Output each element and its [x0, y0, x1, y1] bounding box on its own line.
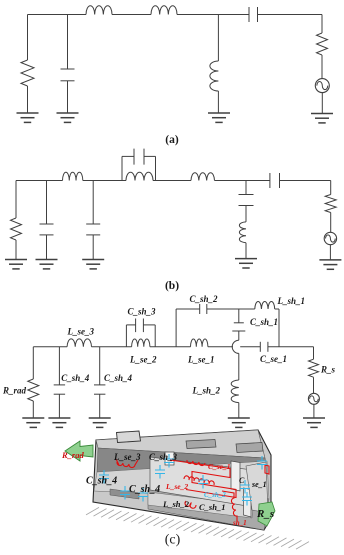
svg-text:C_se_1: C_se_1 — [208, 462, 231, 471]
wire: R_rad to ground — [32, 401, 34, 418]
wire: panel-b tank top left — [122, 155, 134, 157]
wire: C_sh_4 second to ground — [99, 394, 101, 418]
3D model: cyan capacitor mark 7 — [240, 480, 250, 494]
svg-text:C_sh_4: C_sh_4 — [129, 484, 160, 495]
inductor: panel-b shunt branch inductor — [239, 222, 246, 243]
wire: C_sh_3 tank top left — [126, 324, 135, 326]
wire: panel-c rail seg4a — [208, 346, 233, 348]
svg-text:L_sh_2: L_sh_2 — [192, 386, 221, 396]
wire: L_sh_2 to ground — [238, 403, 240, 418]
svg-text:L_se_3: L_se_3 — [67, 327, 95, 337]
svg-text:L_sh_2: L_sh_2 — [162, 499, 190, 509]
capacitor: panel-a shunt capacitor — [61, 69, 75, 81]
svg-text:sh_1: sh_1 — [232, 519, 247, 527]
svg-text:L_se_1: L_se_1 — [187, 355, 215, 365]
wire: C_sh_3 tank right riser — [154, 325, 156, 347]
3D label C_sh_3 — [149, 452, 178, 462]
capacitor: panel-b shunt capacitor 1 — [40, 224, 54, 235]
wire: panel-a resistor to source — [321, 55, 323, 79]
3D model: white slot near C_sh_3 — [165, 452, 174, 465]
wire: panel-b shunt cap1 to ground — [46, 235, 48, 260]
wire: panel-b left resistor lead — [15, 181, 17, 219]
3D model: recessed cavity — [150, 457, 253, 507]
ground: panel-a shunt inductor — [208, 113, 230, 122]
wire: R_s to source — [313, 377, 315, 393]
wire: panel-b tank left riser — [121, 156, 123, 180]
svg-text:C_se_1: C_se_1 — [260, 354, 287, 364]
inductor: panel-b tank inductor — [126, 172, 153, 180]
source: panel-a AC source — [315, 79, 329, 93]
svg-text:R_rad: R_rad — [61, 450, 84, 460]
ground: panel-a source — [311, 114, 333, 123]
label C_se_1 — [260, 354, 287, 364]
3D model: right end inner face — [246, 462, 268, 513]
wire: panel-c right drop — [313, 347, 315, 359]
wire: panel-a rail to series capacitor — [177, 14, 249, 16]
wire: C_sh_1 to hop — [238, 331, 240, 340]
wire: panel-b rail seg5 — [280, 180, 331, 182]
wire: panel-c source to ground — [313, 404, 315, 418]
label C_sh_4 (second) — [104, 373, 133, 383]
3D model: cyan capacitor mark 5 — [164, 454, 174, 468]
wire: panel-b rail seg2 — [83, 180, 126, 182]
wire: panel-b shunt branch to ground — [245, 243, 247, 259]
wire: panel-b shunt cap2 lead — [92, 181, 94, 225]
resistor R_s — [309, 359, 319, 377]
ground: C_sh_4 second — [89, 418, 111, 427]
3D model: label R_rad red — [61, 450, 84, 460]
label L_sh_1 — [277, 296, 306, 306]
capacitor C_sh_3 — [136, 319, 144, 333]
wire: panel-a source to ground — [321, 93, 323, 114]
3D model: red meander row — [184, 476, 214, 485]
svg-text:L_se_2: L_se_2 — [129, 355, 157, 365]
wire: upper branch riser — [175, 309, 177, 347]
wire: C_sh_3 tank left riser — [125, 325, 127, 347]
wire: panel-b rail seg3 — [153, 180, 191, 182]
svg-text:C_sh_2: C_sh_2 — [190, 294, 219, 304]
inductor: panel-a series inductor 1 — [86, 6, 112, 15]
wire: panel-a shunt capacitor lead — [67, 15, 69, 70]
resistor: panel-a source resistor — [317, 33, 328, 55]
inductor: panel-a series inductor 2 — [151, 6, 177, 15]
ground: panel-a shunt capacitor — [57, 113, 79, 122]
wire: panel-b rail seg1 — [16, 180, 63, 182]
resistor: panel-a left shunt resistor — [21, 60, 34, 86]
wire: panel-a rail between inductors — [112, 14, 151, 16]
3D label se_1 — [251, 480, 267, 489]
label L_se_3 — [67, 327, 95, 337]
resistor: panel-b source resistor — [325, 195, 336, 213]
3D model: red feed to bottom right — [222, 491, 237, 522]
3D label C_sh_4 second — [129, 484, 160, 495]
3D model: red trace coil middle — [187, 460, 205, 466]
3D model: cyan capacitor mark 3 — [138, 488, 148, 502]
wire: hop to L_sh_2 — [238, 353, 240, 380]
capacitor: panel-b series capacitor — [270, 173, 280, 188]
wire: panel-a rail right segment — [258, 14, 323, 16]
wire: panel-b tank right riser — [155, 156, 157, 180]
3D model: cyan capacitor mark 8 — [257, 456, 267, 470]
label L_se_1 — [187, 355, 215, 365]
3D model: top-face slot 1 — [186, 440, 216, 449]
ground: L_sh_2 — [228, 418, 250, 427]
capacitor C_se_1 — [260, 342, 268, 352]
wire hop: branch crosses rail without joining — [232, 340, 239, 353]
3D model: cyan capacitor mark 1 — [99, 470, 109, 484]
3D model: red label C_se_1 — [208, 462, 231, 471]
ground: R_rad — [22, 418, 44, 427]
svg-text:R_s: R_s — [320, 365, 336, 375]
3D model: green patch R_s — [258, 502, 275, 526]
inductor L_se_2 — [132, 339, 150, 347]
3D model: vertical slot right — [231, 461, 240, 491]
wire: panel-b shunt branch mid — [245, 206, 247, 222]
source: panel-c AC source — [308, 393, 319, 404]
svg-text:(a): (a) — [165, 134, 179, 146]
3D model: top-face slot 2 — [236, 443, 263, 453]
ground: panel-b shunt capacitor 1 — [36, 260, 58, 269]
wire: R_rad lead — [32, 347, 34, 379]
capacitor C_sh_1 — [232, 323, 245, 331]
3D model: cyan capacitor mark 9 — [242, 492, 252, 506]
svg-text:C_sh_2: C_sh_2 — [204, 491, 226, 499]
3D model: cyan capacitor mark 2 — [120, 486, 130, 500]
wire: L_sh_1 right drop — [278, 309, 280, 347]
label C_sh_3 — [128, 307, 157, 317]
label: (c) — [165, 533, 181, 548]
label: (b) — [165, 280, 179, 292]
capacitor C_sh_2 — [200, 304, 207, 314]
wire: panel-c rail seg1 — [33, 346, 67, 348]
wire: C_sh_4 second lead — [99, 347, 101, 385]
svg-text:(c): (c) — [165, 533, 181, 548]
wire: upper branch top seg1 — [176, 308, 200, 310]
3D label L_se_3 — [113, 452, 141, 462]
svg-text:se_1: se_1 — [251, 480, 267, 489]
capacitor C_sh_4 (first) — [54, 385, 65, 394]
wire: upper branch top seg2 — [207, 308, 255, 310]
ground: panel-b source — [319, 260, 341, 269]
wire: panel-b rail seg4 — [215, 180, 270, 182]
capacitor: panel-a series capacitor — [249, 7, 258, 22]
label R_s — [320, 365, 336, 375]
svg-text:C: C — [239, 476, 245, 485]
svg-text:C_sh_1: C_sh_1 — [250, 317, 278, 327]
wire: panel-b shunt branch lead — [245, 181, 247, 195]
inductor L_se_3 — [67, 339, 91, 347]
3D package model: substrate slab silhouette — [93, 430, 271, 530]
wire: panel-a left resistor to ground — [27, 86, 29, 113]
3D model: cyan label C_sh_2 — [204, 491, 226, 499]
3D model: red mark right edge — [265, 465, 269, 474]
inductor L_sh_2 — [231, 380, 239, 403]
3D model: lower front band right — [148, 490, 269, 530]
svg-text:L_se_3: L_se_3 — [113, 452, 141, 462]
wire: C_sh_1 lead from node — [238, 309, 240, 323]
ground: panel-b shunt branch — [235, 259, 257, 268]
capacitor: panel-b shunt branch capacitor — [239, 195, 254, 206]
svg-text:C_sh_4: C_sh_4 — [61, 373, 90, 383]
3D model: red label sh_1 — [232, 519, 247, 527]
3D label C_sh_1 — [199, 502, 225, 512]
label L_sh_2 — [192, 386, 221, 396]
capacitor C_sh_4 (second) — [94, 385, 105, 394]
3D model: dark upper band — [97, 448, 267, 472]
svg-text:L_sh_1: L_sh_1 — [277, 296, 306, 306]
wire: C_sh_3 tank top right — [143, 324, 155, 326]
3D model: lower-right vertical slot — [244, 488, 252, 517]
svg-text:(b): (b) — [165, 280, 179, 292]
ground: C_sh_4 first — [48, 418, 70, 427]
3D label L_sh_2 — [162, 499, 190, 509]
wire: panel-b source to ground — [329, 245, 331, 260]
label: (a) — [165, 134, 179, 146]
wire: panel-a shunt inductor lead — [217, 15, 219, 62]
capacitor: panel-b shunt capacitor 2 — [86, 224, 100, 235]
wire: panel-c rail seg5 — [268, 346, 314, 348]
wire: panel-a shunt capacitor to ground — [67, 81, 69, 113]
inductor: panel-b series inductor 1 — [63, 172, 83, 180]
3D model: ground hatching — [86, 507, 309, 549]
ground: panel-b left — [5, 260, 27, 269]
inductor L_se_1 — [191, 339, 208, 347]
wire: panel-b right drop — [330, 181, 332, 195]
wire: C_sh_4 first lead — [58, 347, 60, 385]
inductor: panel-b series inductor 2 — [191, 173, 214, 181]
3D model: dark slot under C_sh_4 — [110, 489, 139, 499]
svg-text:L_se_2: L_se_2 — [165, 482, 188, 491]
3D model: top face sliver — [96, 430, 265, 458]
label L_se_2 — [129, 355, 157, 365]
resistor: panel-b left shunt resistor — [11, 218, 22, 240]
label C_sh_1 — [250, 317, 278, 327]
3D model: red loop trace — [170, 460, 236, 498]
svg-text:R_s: R_s — [256, 508, 274, 520]
wire: panel-c rail seg4b — [240, 346, 260, 348]
label C_sh_4 (first) — [61, 373, 90, 383]
wire: panel-b tank top right — [144, 155, 156, 157]
wire: panel-a shunt inductor to ground — [217, 91, 219, 113]
wire: panel-b shunt cap1 lead — [46, 181, 48, 225]
3D model: red coil bottom — [185, 501, 196, 508]
wire: panel-b left resistor to ground — [15, 240, 17, 260]
ground: panel-a left — [17, 113, 39, 122]
3D model: green arrow R_rad port — [65, 441, 93, 461]
3D model: red trace coil under L_se_3 — [116, 459, 138, 468]
inductor L_sh_1 — [255, 301, 275, 309]
svg-text:C_sh_4: C_sh_4 — [104, 373, 133, 383]
inductor: panel-a shunt inductor — [210, 61, 219, 91]
wire: panel-a top rail left segment — [28, 14, 87, 16]
svg-text:C_sh_3: C_sh_3 — [128, 307, 157, 317]
wire: panel-a right drop — [321, 15, 323, 34]
label C_sh_2 — [190, 294, 219, 304]
wire: panel-b resistor to source — [330, 213, 332, 233]
wire: upper branch top seg3 — [275, 308, 279, 310]
3D model: label R_s — [256, 508, 274, 520]
svg-text:C_sh_1: C_sh_1 — [199, 502, 225, 512]
wire: panel-b shunt cap2 to ground — [92, 235, 94, 260]
3D model: raised block on top left — [117, 431, 141, 443]
label R_rad — [2, 386, 27, 396]
3D model: light label strip bottom — [148, 492, 253, 518]
wire: C_sh_4 first to ground — [58, 394, 60, 418]
3D model: light middle band — [94, 461, 269, 499]
3D model: cyan capacitor mark 6 — [198, 475, 208, 489]
wire: panel-c rail seg2 — [92, 346, 132, 348]
resistor R_rad — [28, 379, 39, 401]
wire: panel-a left shunt resistor lead — [27, 15, 29, 61]
3D model: cyan capacitor mark 4 — [155, 465, 165, 479]
3D model: red label L_se_2 — [165, 482, 188, 491]
ground: panel-b shunt capacitor 2 — [82, 260, 104, 269]
svg-text:C_sh_4: C_sh_4 — [86, 476, 117, 487]
source: panel-b AC source — [324, 232, 336, 244]
3D label C box — [239, 476, 245, 485]
ground: panel-c source — [303, 418, 325, 427]
svg-text:R_rad: R_rad — [2, 386, 27, 396]
wire: panel-c rail seg3 — [150, 346, 191, 348]
3D label C_sh_4 first — [86, 476, 117, 487]
svg-text:C_sh_3: C_sh_3 — [149, 452, 178, 462]
capacitor: panel-b tank capacitor — [134, 149, 144, 165]
